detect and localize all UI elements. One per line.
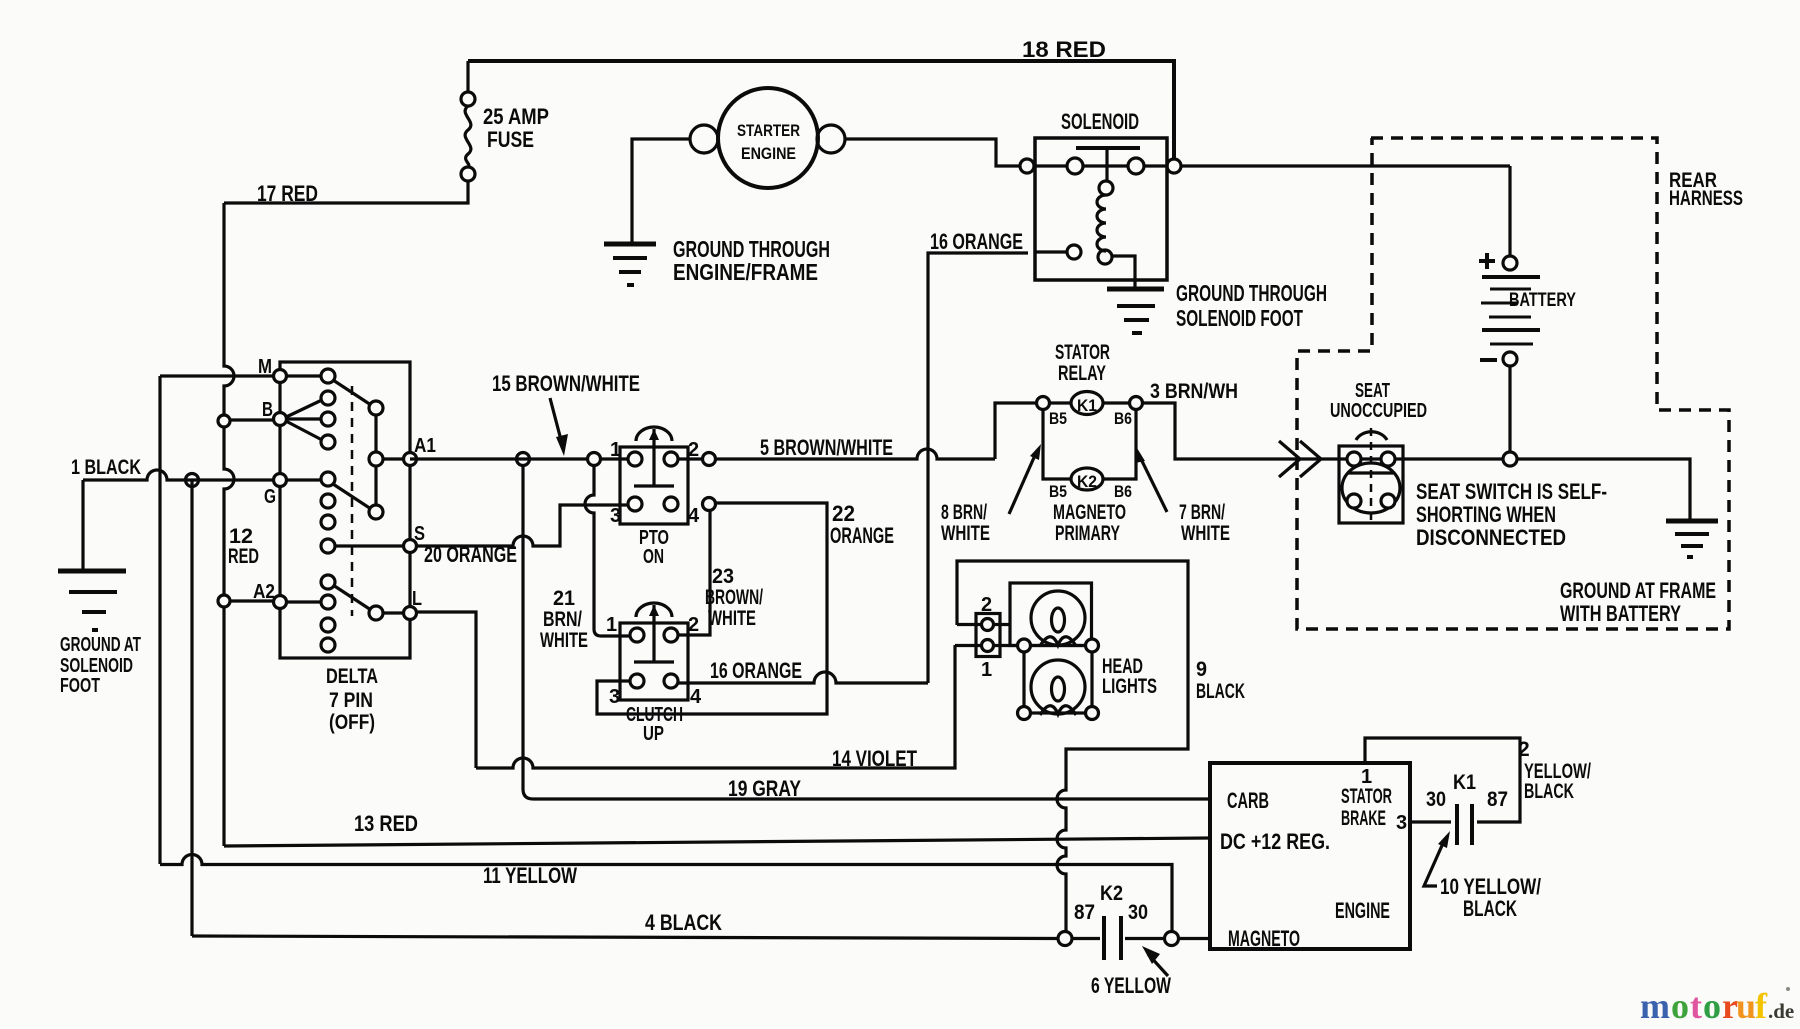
- solenoid coil top terminal: [1099, 181, 1113, 195]
- wire G contact row: [280, 478, 328, 481]
- headlight terminal bottom-right: [1086, 707, 1099, 720]
- svg-text:ENGINE: ENGINE: [741, 144, 796, 163]
- relay K2 terminal 87 junction: [1058, 932, 1072, 946]
- svg-text:STATOR: STATOR: [1055, 341, 1110, 364]
- svg-text:ORANGE: ORANGE: [830, 523, 894, 548]
- rear harness dashed boundary: [1297, 138, 1729, 629]
- fuse F1 terminal bottom: [461, 167, 475, 181]
- clutch switch box: [620, 623, 688, 700]
- starter motor M1 body: [718, 88, 818, 188]
- wire L contact row: [376, 611, 410, 614]
- svg-text:STATOR: STATOR: [1341, 785, 1392, 808]
- svg-text:WHITE: WHITE: [540, 629, 588, 652]
- solenoid coil winding: [1097, 195, 1106, 251]
- svg-text:DC +12 REG.: DC +12 REG.: [1220, 829, 1330, 854]
- svg-text:A1: A1: [414, 435, 436, 457]
- svg-text:1 BLACK: 1 BLACK: [71, 456, 141, 479]
- svg-text:14 VIOLET: 14 VIOLET: [832, 746, 917, 771]
- PTO pin 3: [628, 497, 642, 511]
- wire B6 riser down to K2: [1103, 409, 1136, 479]
- svg-text:13 RED: 13 RED: [354, 811, 418, 836]
- svg-text:UNOCCUPIED: UNOCCUPIED: [1330, 400, 1427, 422]
- seat switch contact bar: [1348, 471, 1394, 474]
- svg-text:17 RED: 17 RED: [257, 181, 318, 206]
- headlight lamp 1 filament: [1052, 608, 1065, 632]
- clutch pin 4: [664, 674, 678, 688]
- solenoid body box: [1035, 138, 1167, 280]
- headlight lamp 2 bulb: [1031, 660, 1085, 714]
- PTO switch box: [620, 447, 688, 524]
- wire 5 BROWN/WHITE riser to K1 contact B5: [995, 403, 1037, 459]
- wire battery negative lead: [1508, 366, 1511, 451]
- svg-text:m: m: [1640, 986, 1670, 1026]
- battery minus sign: [1480, 358, 1497, 362]
- svg-text:B6: B6: [1114, 482, 1132, 501]
- svg-text:A2: A2: [253, 581, 275, 603]
- svg-text:2: 2: [981, 594, 992, 616]
- battery BT1 plus terminal: [1503, 256, 1517, 270]
- wire 1 BLACK ground drop: [81, 480, 84, 569]
- svg-text:4: 4: [688, 505, 700, 527]
- svg-text:SEAT SWITCH IS SELF-: SEAT SWITCH IS SELF-: [1416, 479, 1607, 504]
- junction circle at B terminal tap: [218, 415, 230, 427]
- wire 12 RED segment B to A2: [224, 427, 234, 595]
- svg-text:15 BROWN/WHITE: 15 BROWN/WHITE: [492, 371, 640, 396]
- wire M contact row: [280, 374, 328, 377]
- wire solenoid right terminal to battery plus: [1181, 164, 1510, 167]
- svg-text:4: 4: [690, 686, 702, 708]
- wire 23 BROWN/WHITE PTO4 to clutch 2: [678, 511, 710, 635]
- svg-text:SOLENOID: SOLENOID: [1061, 109, 1139, 134]
- svg-text:WITH BATTERY: WITH BATTERY: [1560, 601, 1681, 626]
- solenoid terminal left (battery side): [1020, 159, 1034, 173]
- svg-text:(OFF): (OFF): [329, 711, 375, 734]
- svg-text:2: 2: [1518, 738, 1530, 761]
- svg-text:21: 21: [553, 587, 575, 610]
- headlight terminal top-left: [1018, 639, 1031, 652]
- wire A2 terminal tap link: [224, 599, 280, 602]
- solenoid plunger bar: [1076, 146, 1140, 150]
- relay K2 contact bars: [1104, 916, 1121, 960]
- clutch actuator stem: [652, 605, 655, 662]
- svg-text:ENGINE: ENGINE: [1335, 898, 1390, 923]
- wire coil bottom to solenoid foot ground: [1112, 256, 1135, 287]
- headlight lamp 2 filament: [1052, 677, 1065, 701]
- svg-text:WHITE: WHITE: [1181, 522, 1230, 545]
- solenoid coil bottom terminal: [1098, 250, 1112, 264]
- wire 21 BRN/WHITE (hop over 20 ORANGE run): [585, 466, 630, 636]
- svg-text:19 GRAY: 19 GRAY: [728, 776, 801, 801]
- relay K2 terminal 30 junction: [1165, 932, 1179, 946]
- wire 16 ORANGE clutch 4 to solenoid riser (hop over 22 ORANGE): [678, 672, 928, 683]
- svg-text:B: B: [262, 399, 273, 421]
- wire 9 BLACK loop (headlight ground return, hops over 19 GRAY / 13 RED / 11 YELLOW): [957, 561, 1188, 931]
- seat switch body box: [1339, 446, 1403, 523]
- seat switch internal circle: [1342, 463, 1400, 513]
- headlight upper housing: [1010, 583, 1092, 646]
- ignition pin circles middle column: [321, 369, 335, 652]
- svg-text:87: 87: [1487, 788, 1508, 811]
- svg-text:30: 30: [1426, 788, 1446, 811]
- PTO pin 4: [664, 497, 678, 511]
- wire starter left terminal to ground: [632, 139, 690, 242]
- svg-text:CARB: CARB: [1227, 788, 1269, 813]
- wire G switch diagonal: [333, 484, 371, 509]
- svg-text:LIGHTS: LIGHTS: [1102, 675, 1157, 698]
- wire 12 RED lower drop to 13 RED run: [222, 607, 225, 846]
- svg-text:L: L: [412, 588, 422, 610]
- svg-text:BLACK: BLACK: [1524, 780, 1574, 803]
- starter terminal right: [817, 125, 845, 153]
- wire 13 RED A2 run to DC +12 REG: [224, 838, 1210, 846]
- svg-text:BRN/: BRN/: [543, 608, 582, 631]
- svg-text:PRIMARY: PRIMARY: [1055, 522, 1120, 545]
- wire through seat switch: [1339, 457, 1403, 460]
- arrow 6 YELLOW pointer: [1148, 954, 1168, 976]
- watermark motoruf.de logo: [1640, 986, 1794, 1026]
- svg-text:o: o: [1671, 986, 1689, 1026]
- wire 17 RED vertical drop to B terminal (12 RED run) with hop over M wire: [224, 203, 234, 415]
- svg-text:1: 1: [606, 614, 617, 636]
- PTO pin 1: [628, 452, 642, 466]
- svg-text:3: 3: [610, 505, 621, 527]
- svg-text:5 BROWN/WHITE: 5 BROWN/WHITE: [760, 435, 893, 460]
- svg-text:K1: K1: [1077, 396, 1097, 415]
- svg-text:RED: RED: [228, 545, 259, 568]
- seat harness connector chevron 1: [1279, 441, 1300, 477]
- svg-text:1: 1: [981, 659, 992, 681]
- svg-text:t: t: [1690, 986, 1702, 1026]
- svg-text:SEAT: SEAT: [1355, 380, 1390, 402]
- clutch pin 1: [630, 628, 644, 642]
- ground symbol frame with battery: [1666, 519, 1718, 524]
- arrow 15 BROWN/WHITE pointer: [550, 398, 561, 440]
- seat switch actuator arc: [1356, 432, 1387, 440]
- stator relay K1 terminal B6: [1130, 397, 1143, 410]
- wire inner contacts: [1034, 164, 1167, 167]
- junction A1 branch to 19 GRAY: [517, 453, 530, 466]
- svg-text:16 ORANGE: 16 ORANGE: [930, 229, 1023, 254]
- wire A1 terminal link: [376, 457, 410, 460]
- fuse F1 element: [465, 106, 471, 167]
- svg-text:HARNESS: HARNESS: [1669, 187, 1743, 210]
- wire A1 riser: [374, 413, 377, 506]
- svg-text:B6: B6: [1114, 409, 1132, 428]
- svg-text:G: G: [264, 486, 276, 508]
- svg-text:2: 2: [688, 614, 699, 636]
- svg-text:FUSE: FUSE: [487, 127, 534, 152]
- svg-text:7 PIN: 7 PIN: [329, 689, 373, 712]
- wire M switch diagonal: [333, 380, 371, 405]
- svg-text:GROUND AT: GROUND AT: [60, 634, 141, 656]
- svg-text:MAGNETO: MAGNETO: [1053, 501, 1126, 524]
- svg-text:7 BRN/: 7 BRN/: [1179, 501, 1225, 524]
- stator relay K1 terminal B5: [1037, 397, 1050, 410]
- wire 17 RED: [224, 181, 468, 203]
- ignition switch DELTA 7 PIN box: [280, 362, 410, 658]
- svg-text:UP: UP: [643, 723, 664, 745]
- wire M terminal feed: [160, 374, 280, 377]
- svg-text:u: u: [1736, 986, 1756, 1026]
- wire left drop to 11 YELLOW: [158, 376, 161, 864]
- PTO actuator stem: [652, 429, 655, 486]
- wire starter right terminal to solenoid: [845, 139, 1020, 166]
- PTO pin 2: [664, 452, 678, 466]
- svg-text:K2: K2: [1077, 472, 1097, 491]
- wire 14 VIOLET run (hop over 19 GRAY): [476, 645, 955, 768]
- wire 4 BLACK run: [192, 936, 1058, 939]
- seat harness connector chevron 2: [1300, 441, 1321, 477]
- svg-text:FOOT: FOOT: [60, 675, 100, 697]
- clutch pin 3: [630, 674, 644, 688]
- battery plates: [1482, 275, 1540, 279]
- headlight lamp 1 bulb: [1031, 591, 1085, 645]
- svg-text:GROUND THROUGH: GROUND THROUGH: [1176, 280, 1327, 306]
- svg-text:RELAY: RELAY: [1058, 362, 1106, 385]
- relay K2 contact wires: [1072, 937, 1164, 940]
- svg-text:4 BLACK: 4 BLACK: [645, 910, 722, 935]
- wire 18 RED (top run): [468, 61, 1174, 159]
- svg-text:BLACK: BLACK: [1463, 896, 1517, 921]
- wire stator brake pin 3 to K1: [1410, 820, 1451, 823]
- wire seat switch to frame ground: [1403, 459, 1690, 519]
- svg-text:18 RED: 18 RED: [1022, 37, 1106, 62]
- svg-text:25 AMP: 25 AMP: [483, 104, 549, 129]
- PTO terminal outside 1: [588, 453, 601, 466]
- clutch pin 2: [664, 628, 678, 642]
- wire L switch diagonal: [333, 585, 371, 610]
- ground symbol engine/frame: [604, 242, 656, 247]
- svg-text:WHITE: WHITE: [941, 522, 990, 545]
- solenoid plunger stem: [1105, 150, 1108, 181]
- wire 4 BLACK drop: [190, 480, 193, 936]
- svg-text:ON: ON: [643, 546, 664, 568]
- headlight lower housing: [1024, 646, 1092, 714]
- junction battery negative on seat wire: [1503, 452, 1517, 466]
- wire 2 YELLOW/BLACK loop K1 87 to stator brake pin 1: [1365, 738, 1520, 822]
- svg-text:BRAKE: BRAKE: [1341, 807, 1386, 830]
- PTO terminal outside 2: [703, 453, 716, 466]
- seat switch dashed centerline: [1370, 428, 1373, 523]
- stator relay K2 contact ellipse: [1071, 468, 1103, 490]
- wire L to 14 VIOLET: [417, 612, 476, 768]
- ignition moving contact circles: [369, 401, 383, 620]
- starter terminal left: [690, 125, 718, 153]
- svg-text:20 ORANGE: 20 ORANGE: [424, 542, 517, 567]
- solenoid inner contact left: [1067, 158, 1083, 174]
- svg-text:DELTA: DELTA: [326, 665, 378, 688]
- wire 16 ORANGE solenoid to clutch (left then down): [928, 252, 1067, 683]
- wire magneto stub: [1178, 937, 1210, 940]
- headlight terminal top-right: [1086, 639, 1099, 652]
- solenoid coil terminal 16 ORANGE side: [1067, 245, 1081, 259]
- battery plus sign: [1479, 253, 1495, 269]
- wire B terminal tap link: [224, 418, 280, 421]
- svg-text:BLACK: BLACK: [1196, 680, 1245, 703]
- PTO actuator arc: [636, 427, 672, 441]
- svg-text:SOLENOID FOOT: SOLENOID FOOT: [1176, 305, 1303, 331]
- svg-text:STARTER: STARTER: [737, 121, 800, 140]
- svg-text:MAGNETO: MAGNETO: [1228, 926, 1300, 951]
- seat switch pin top-left: [1347, 452, 1361, 466]
- svg-text:SHORTING WHEN: SHORTING WHEN: [1416, 502, 1556, 527]
- svg-text:ENGINE/FRAME: ENGINE/FRAME: [673, 259, 818, 285]
- arrow 10 YELLOW/BLACK pointer: [1424, 841, 1444, 886]
- wire 3 BRN/WH from B6 to seat switch: [1142, 403, 1339, 459]
- svg-text:K1: K1: [1453, 771, 1476, 794]
- arrow 8 BRN/WHITE pointer: [1009, 453, 1036, 514]
- ground symbol solenoid foot: [1107, 287, 1164, 292]
- solenoid inner contact right: [1128, 158, 1144, 174]
- svg-text:f: f: [1755, 986, 1768, 1026]
- clutch actuator arc: [636, 603, 672, 617]
- arrow 7 BRN/WHITE pointer: [1141, 459, 1167, 512]
- svg-text:8 BRN/: 8 BRN/: [941, 501, 987, 524]
- PTO actuator bar: [634, 484, 674, 487]
- headlight connector pin 1: [982, 640, 994, 652]
- wire 19 GRAY drop and run to CARB: [523, 466, 1210, 799]
- svg-text:WHITE: WHITE: [708, 607, 756, 630]
- wire headlight connector pin 1 stubs: [955, 644, 1020, 647]
- svg-text:BROWN/: BROWN/: [705, 586, 763, 609]
- relay K1 contact bars: [1457, 804, 1472, 845]
- ignition terminal circles: [274, 370, 417, 620]
- wire fuse top lead: [466, 61, 469, 92]
- solenoid terminal right: [1167, 159, 1181, 173]
- wire PTO pin2 stub: [678, 457, 702, 460]
- svg-text:1: 1: [610, 439, 621, 461]
- PTO terminal outside 4: [703, 498, 716, 511]
- wire headlight connector pin 2 stubs: [957, 623, 1010, 626]
- svg-text:B5: B5: [1049, 482, 1067, 501]
- svg-text:87: 87: [1074, 901, 1095, 924]
- svg-text:M: M: [258, 356, 272, 378]
- fuse F1 terminal top: [461, 92, 475, 106]
- wire B5 riser down to K2: [1043, 409, 1071, 479]
- svg-text:30: 30: [1128, 901, 1148, 924]
- battery BT1 minus terminal: [1503, 352, 1517, 366]
- wire battery positive lead: [1508, 166, 1511, 256]
- junction circle at A2 terminal tap: [218, 595, 230, 607]
- headlight connector pin 2: [982, 619, 994, 631]
- svg-text:o: o: [1703, 986, 1721, 1026]
- svg-text:3 BRN/WH: 3 BRN/WH: [1150, 380, 1238, 403]
- svg-text:BATTERY: BATTERY: [1509, 290, 1576, 311]
- svg-text:3: 3: [609, 686, 620, 708]
- ground symbol at solenoid foot (left): [58, 569, 126, 574]
- wire 11 YELLOW (hop over 4 BLACK drop): [160, 855, 1172, 931]
- svg-text:GROUND AT FRAME: GROUND AT FRAME: [1560, 578, 1716, 603]
- stator relay K1 contact link: [1049, 401, 1130, 404]
- clutch actuator bar: [634, 660, 674, 663]
- wire S contact row: [334, 544, 410, 547]
- svg-text:11 YELLOW: 11 YELLOW: [483, 863, 577, 888]
- headlight connector box: [976, 614, 1000, 657]
- svg-text:SOLENOID: SOLENOID: [60, 655, 133, 677]
- engine control module box: [1210, 763, 1410, 949]
- wire 1 BLACK with hops: [83, 470, 280, 480]
- junction 1 BLACK / 4 BLACK: [186, 474, 199, 487]
- wire 5 BROWN/WHITE PTO to stator relay (hop over 16 ORANGE): [716, 449, 995, 459]
- seat switch pin top-right: [1381, 452, 1395, 466]
- svg-text:16 ORANGE: 16 ORANGE: [710, 658, 802, 683]
- wire PTO pin1 stub: [600, 457, 628, 460]
- svg-text:9: 9: [1196, 658, 1207, 681]
- wire A2 contact row: [280, 600, 328, 603]
- wire 20 ORANGE from S to PTO pin 3 (hop over 19 GRAY): [417, 505, 628, 546]
- svg-text:23: 23: [712, 565, 734, 588]
- svg-text:6 YELLOW: 6 YELLOW: [1091, 973, 1171, 998]
- svg-text:B5: B5: [1049, 409, 1067, 428]
- svg-text:.de: .de: [1768, 999, 1794, 1023]
- seat switch pin bottom-right: [1381, 494, 1395, 508]
- seat switch pin bottom-left: [1347, 494, 1361, 508]
- svg-text:3: 3: [1396, 812, 1407, 834]
- svg-text:DISCONNECTED: DISCONNECTED: [1416, 525, 1566, 550]
- headlight terminal bottom-left: [1018, 707, 1031, 720]
- stator relay K1 contact ellipse: [1071, 392, 1103, 415]
- ignition internal dashed line: [351, 386, 354, 616]
- wire 22 ORANGE loop PTO4 to clutch 3: [597, 503, 827, 714]
- svg-text:K2: K2: [1100, 882, 1123, 905]
- wire 5 BROWN/WHITE from A1 to PTO: [410, 457, 588, 460]
- wire B fan: [282, 399, 324, 441]
- svg-text:2: 2: [688, 439, 699, 461]
